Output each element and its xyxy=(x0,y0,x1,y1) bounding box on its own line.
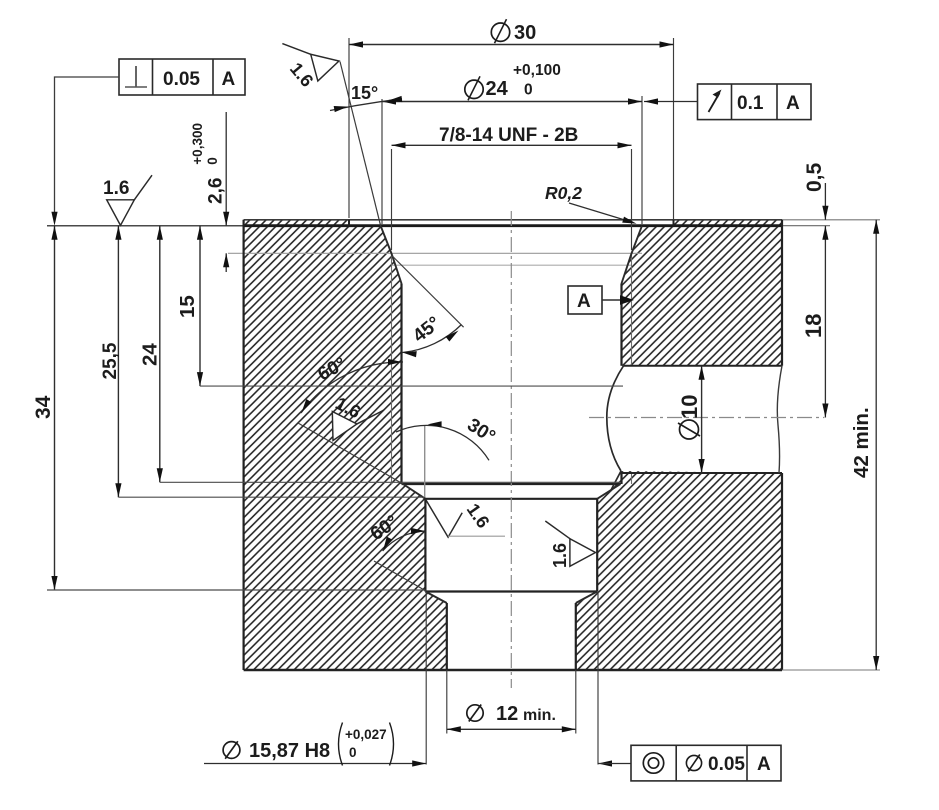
spotface step right xyxy=(673,220,675,226)
block left edge xyxy=(243,220,245,670)
gland depth line 2.6 deep xyxy=(228,252,642,254)
spotface line extension right xyxy=(782,225,830,227)
cross hole top edge xyxy=(624,365,783,367)
spotface step left xyxy=(348,220,350,226)
svg-text:0: 0 xyxy=(349,745,357,760)
dimension thread 7/8-14 UNF - 2B xyxy=(392,125,632,250)
dimension D24 counterbore xyxy=(382,62,642,224)
dimension 42 min overall xyxy=(850,220,879,670)
chamfer end line xyxy=(392,264,632,266)
svg-text:42 min.: 42 min. xyxy=(850,407,873,478)
svg-text:24: 24 xyxy=(486,78,509,100)
dimension 60 degree angle upper xyxy=(298,353,403,484)
bore wall right (15.87) xyxy=(596,499,598,592)
svg-text:A: A xyxy=(786,93,800,114)
svg-text:15: 15 xyxy=(176,295,199,318)
bore top edge at 25.5 depth xyxy=(425,498,597,500)
svg-text:1.6: 1.6 xyxy=(463,500,494,532)
dimension 18 to cross hole xyxy=(801,226,829,418)
svg-text:+0,100: +0,100 xyxy=(513,62,561,79)
cavity floor at 24 depth xyxy=(402,483,621,485)
svg-text:30°: 30° xyxy=(463,415,499,448)
hatch lower-right block xyxy=(576,471,782,670)
svg-text:18: 18 xyxy=(801,314,826,338)
svg-text:0: 0 xyxy=(524,82,533,99)
svg-text:min.: min. xyxy=(523,707,556,724)
svg-text:15°: 15° xyxy=(351,83,378,103)
svg-text:0.1: 0.1 xyxy=(737,93,764,114)
svg-text:0,5: 0,5 xyxy=(803,162,826,192)
svg-text:1.6: 1.6 xyxy=(103,178,129,199)
port 15deg lead chamfer left xyxy=(381,226,402,284)
svg-text:7/8-14 UNF - 2B: 7/8-14 UNF - 2B xyxy=(439,125,578,146)
svg-text:1.6: 1.6 xyxy=(550,543,570,568)
chamfer into 12 bore right xyxy=(576,592,597,604)
svg-text:A: A xyxy=(757,754,771,775)
datum A box xyxy=(568,286,634,314)
30deg chamfer left xyxy=(403,484,425,499)
thread major diameter right upper (thin) xyxy=(631,254,633,366)
block right edge lower xyxy=(781,473,783,670)
dimension 25,5 depth xyxy=(100,226,425,498)
chamfer into 12 bore left xyxy=(425,592,446,604)
dimension 34 depth xyxy=(32,226,425,590)
dimension 60 degree angle lower xyxy=(367,511,426,591)
bore 12 wall right xyxy=(575,603,577,670)
svg-text:+0,027: +0,027 xyxy=(345,727,387,742)
svg-text:24: 24 xyxy=(139,343,162,366)
dimension 45 degree angle xyxy=(392,256,464,358)
top face extension right for 42min xyxy=(782,219,880,221)
dimension 15 depth xyxy=(176,226,623,386)
svg-text:2,6: 2,6 xyxy=(206,178,227,204)
spotface line extension left xyxy=(47,225,244,227)
shoulder at 34 depth xyxy=(425,590,597,592)
hatch left block xyxy=(244,220,447,670)
svg-text:10: 10 xyxy=(677,395,702,419)
cross hole centerline xyxy=(589,417,824,419)
svg-text:A: A xyxy=(222,69,236,90)
port 15deg lead chamfer right xyxy=(622,226,643,284)
bore wall left (15.87) xyxy=(424,499,426,592)
feature control frame perpendicularity 0.05 A xyxy=(51,59,245,226)
bottom face xyxy=(244,669,782,671)
dimension 24 depth xyxy=(139,226,621,483)
feature control frame runout 0.1 A xyxy=(644,84,811,120)
dimension R0,2 xyxy=(545,183,637,227)
thread major diameter left (thin) xyxy=(391,254,393,485)
dimension D30 spotface xyxy=(349,19,674,219)
svg-text:25,5: 25,5 xyxy=(100,342,121,379)
svg-text:34: 34 xyxy=(32,395,55,419)
svg-text:15,87 H8: 15,87 H8 xyxy=(249,740,330,762)
svg-text:12: 12 xyxy=(496,703,518,725)
thread minor wall right lower stub xyxy=(620,473,622,484)
dimension D15,87 H8 xyxy=(204,592,631,767)
spotface bottom line (heavy across port) xyxy=(244,224,782,227)
hatch upper-right block xyxy=(622,220,783,366)
bottom face extension right xyxy=(782,669,880,671)
dimension D12 min xyxy=(447,670,576,734)
30deg chamfer right xyxy=(597,484,620,499)
cross hole bottom edge xyxy=(621,472,782,474)
svg-text:0.05: 0.05 xyxy=(163,69,200,90)
dimension 0,5 spotface depth xyxy=(803,162,829,219)
dimension 2,6 gland depth xyxy=(190,112,229,272)
thread minor wall left xyxy=(400,284,402,485)
cross hole breakout arc xyxy=(607,366,624,471)
thread major diameter right lower stub (thin) xyxy=(631,473,633,484)
svg-text:30: 30 xyxy=(514,22,536,44)
top face line xyxy=(244,219,782,221)
surface finish 1.6 mid check xyxy=(425,499,505,537)
dimension D10 cross hole xyxy=(677,366,705,473)
thread minor wall right upper xyxy=(620,284,622,366)
surface finish 1.6 on 15 deg chamfer xyxy=(282,31,342,88)
dimension 30 degree angle xyxy=(396,415,499,497)
svg-text:0.05: 0.05 xyxy=(708,754,745,775)
svg-text:R0,2: R0,2 xyxy=(545,183,582,203)
surface finish 1.6 right bore wall xyxy=(545,521,595,566)
bore 12 wall left xyxy=(446,603,448,670)
svg-text:0: 0 xyxy=(205,157,220,165)
right face break curve across hole xyxy=(777,366,782,473)
svg-text:+0,300: +0,300 xyxy=(190,123,205,165)
feature control frame concentricity xyxy=(631,745,781,781)
surface finish 1.6 top-left xyxy=(103,175,152,225)
surface finish 1.6 on 30 deg cone xyxy=(321,389,384,454)
svg-text:A: A xyxy=(577,291,591,312)
main vertical centerline xyxy=(510,211,512,688)
dimension 15 degree lead-in angle xyxy=(330,62,402,226)
block right edge upper xyxy=(781,220,783,366)
